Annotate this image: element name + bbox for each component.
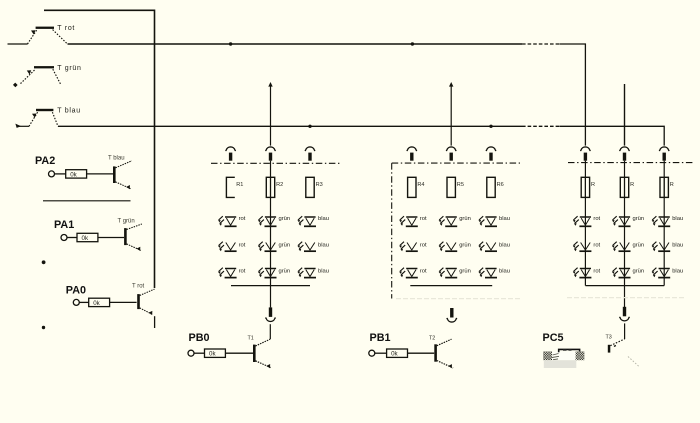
svg-text:T blau: T blau bbox=[108, 156, 125, 162]
resistor R9 bbox=[660, 177, 674, 197]
terminal PB0 with resistor 0k bbox=[188, 349, 225, 358]
connector arrow down module 3 bbox=[619, 307, 630, 321]
wire gruen feed module 1 with up arrow bbox=[268, 82, 272, 146]
svg-text:T blau: T blau bbox=[57, 108, 81, 115]
resistor R7 bbox=[581, 177, 595, 197]
svg-text:grün: grün bbox=[459, 269, 471, 275]
module 2 dash-dot border top bbox=[392, 162, 520, 164]
svg-text:blau: blau bbox=[672, 243, 683, 249]
svg-text:R2: R2 bbox=[276, 182, 283, 188]
wire module 3 arrow to T3 collector bbox=[624, 323, 626, 339]
wire module 1 arrow to T1 collector bbox=[269, 324, 271, 339]
LED D92 module 3 blau row 2 bbox=[652, 242, 684, 252]
LED D42 module 2 rot row 2 bbox=[399, 242, 427, 252]
wire top feed from T rot base to PA0 driver collector bbox=[44, 10, 155, 288]
wire faint caption under module 3 bbox=[567, 297, 686, 299]
svg-text:R: R bbox=[630, 182, 634, 188]
wire gruen feed module 2 with up arrow bbox=[449, 82, 453, 146]
node dot left of PA0 bbox=[42, 326, 45, 329]
svg-text:rot: rot bbox=[593, 269, 600, 275]
svg-text:R: R bbox=[591, 182, 595, 188]
junction blau rail / module 1 blau column bbox=[308, 125, 311, 128]
resistor R1 bbox=[226, 177, 243, 197]
svg-text:blau: blau bbox=[672, 269, 683, 275]
svg-text:T grün: T grün bbox=[57, 65, 81, 72]
transistor T2 (column driver) bbox=[434, 339, 453, 368]
connector arrow up module 3 gruen column bbox=[619, 147, 630, 161]
terminal PA2 with resistor 0k bbox=[49, 170, 87, 179]
connector arrow up module 1 rot column bbox=[225, 147, 236, 161]
LED D63 module 2 blau row 3 bbox=[478, 268, 510, 278]
LED D41 module 2 rot row 1 bbox=[399, 216, 427, 226]
wire blau rail dashed segment bbox=[522, 125, 560, 127]
svg-text:R6: R6 bbox=[497, 182, 504, 188]
transistor T rot (PNP row driver) bbox=[8, 27, 68, 44]
wire PB1 resistor to T2 base bbox=[408, 352, 435, 354]
svg-text:rot: rot bbox=[420, 269, 427, 275]
svg-text:rot: rot bbox=[239, 269, 246, 275]
terminal PB1 with resistor 0k bbox=[369, 349, 408, 358]
LED D62 module 2 blau row 2 bbox=[478, 242, 510, 252]
svg-text:R1: R1 bbox=[236, 182, 243, 188]
wire PA0 driver emitter stub bbox=[154, 316, 156, 328]
svg-text:blau: blau bbox=[499, 216, 510, 222]
terminal PA1 with resistor 0k bbox=[61, 233, 98, 242]
resistor PC5 (selected, hatched) bbox=[543, 349, 584, 368]
wire PA2 resistor to driver base bbox=[87, 173, 113, 175]
svg-text:blau: blau bbox=[318, 269, 329, 275]
LED D82 module 3 gruen row 2 bbox=[612, 242, 644, 252]
LED D83 module 3 gruen row 3 bbox=[612, 268, 644, 278]
wire module 2 bottom connector bbox=[410, 285, 492, 287]
svg-text:0k: 0k bbox=[209, 351, 216, 358]
svg-text:blau: blau bbox=[499, 269, 510, 275]
wire rot rail dashed segment bbox=[522, 43, 560, 45]
module 1 dash-dot border top bbox=[211, 162, 340, 164]
svg-text:grün: grün bbox=[279, 216, 291, 222]
svg-text:R: R bbox=[670, 182, 674, 188]
terminal PA0 with resistor 0k bbox=[73, 298, 109, 307]
wire faint caption under module 2 bbox=[396, 298, 521, 300]
LED D61 module 2 blau row 1 bbox=[478, 216, 510, 226]
svg-text:T rot: T rot bbox=[132, 284, 145, 290]
wire module 3 column vertical bbox=[663, 161, 665, 286]
svg-text:blau: blau bbox=[318, 243, 329, 249]
LED D43 module 2 rot row 3 bbox=[399, 268, 427, 278]
connector arrow up module 3 rot column bbox=[580, 147, 591, 161]
wire stray segment below PA2 bbox=[43, 200, 131, 202]
module 2 dash-dot border left bbox=[391, 163, 393, 298]
connector arrow down module 1 bbox=[265, 307, 276, 321]
wire module 1 bottom connector bbox=[231, 285, 310, 287]
svg-text:rot: rot bbox=[239, 243, 246, 249]
svg-text:grün: grün bbox=[279, 243, 291, 249]
transistor T3 (column driver) bbox=[608, 339, 639, 367]
wire PB0 resistor to T1 base bbox=[225, 352, 253, 354]
LED D22 module 1 gruen row 2 bbox=[258, 242, 290, 252]
svg-text:T3: T3 bbox=[606, 334, 612, 340]
svg-text:rot: rot bbox=[420, 243, 427, 249]
junction blau rail / module 2 blau column bbox=[489, 125, 492, 128]
LED D53 module 2 gruen row 3 bbox=[439, 268, 471, 278]
resistor R5 bbox=[447, 177, 464, 197]
svg-text:0k: 0k bbox=[70, 171, 77, 178]
svg-text:0k: 0k bbox=[82, 235, 89, 242]
svg-text:T grün: T grün bbox=[118, 218, 135, 224]
wire module 3 cathode drop bbox=[624, 286, 626, 307]
transistor T gruen (PNP row driver) bbox=[13, 66, 61, 87]
svg-text:grün: grün bbox=[459, 243, 471, 249]
resistor R8 bbox=[620, 177, 634, 197]
svg-text:PA2: PA2 bbox=[35, 155, 55, 167]
svg-text:grün: grün bbox=[633, 243, 645, 249]
connector arrow up module 1 blau column bbox=[305, 147, 316, 161]
LED D91 module 3 blau row 1 bbox=[652, 216, 684, 226]
LED D31 module 1 blau row 1 bbox=[297, 216, 329, 226]
svg-text:PA1: PA1 bbox=[54, 219, 74, 231]
svg-text:grün: grün bbox=[459, 216, 471, 222]
svg-text:0k: 0k bbox=[93, 300, 100, 307]
svg-text:T rot: T rot bbox=[57, 25, 75, 32]
svg-text:PB0: PB0 bbox=[189, 332, 210, 344]
wire module 1 cathode drop bbox=[270, 286, 272, 308]
resistor R4 bbox=[408, 177, 425, 197]
svg-text:R4: R4 bbox=[417, 182, 424, 188]
LED D32 module 1 blau row 2 bbox=[297, 242, 329, 252]
resistor R3 bbox=[306, 177, 323, 197]
svg-text:T2: T2 bbox=[429, 336, 435, 342]
LED D81 module 3 gruen row 1 bbox=[612, 216, 644, 226]
wire module 1 gruen column vertical bbox=[270, 161, 272, 286]
transistor T blau (PNP row driver) bbox=[15, 109, 58, 129]
resistor R2 bbox=[266, 177, 283, 197]
wire module 3 bottom connector bbox=[585, 285, 664, 287]
connector arrow down module 2 bbox=[446, 308, 457, 322]
wire rot rail right end with corner down to block 3 bbox=[560, 44, 586, 146]
svg-text:blau: blau bbox=[318, 216, 329, 222]
wire module 3 column vertical bbox=[584, 161, 586, 286]
wire PA0 resistor to driver base bbox=[110, 301, 137, 303]
svg-text:PB1: PB1 bbox=[370, 332, 391, 344]
LED D93 module 3 blau row 3 bbox=[652, 268, 684, 278]
svg-text:0k: 0k bbox=[391, 351, 398, 358]
LED D23 module 1 gruen row 3 bbox=[258, 268, 290, 278]
svg-text:blau: blau bbox=[672, 216, 683, 222]
connector arrow up module 3 blau column bbox=[659, 147, 670, 161]
transistor driver T gruen (PA1) bbox=[124, 224, 142, 251]
node dot left of PA1 bbox=[42, 260, 46, 264]
svg-text:grün: grün bbox=[633, 269, 645, 275]
LED D13 module 1 rot row 3 bbox=[218, 268, 246, 278]
LED D12 module 1 rot row 2 bbox=[218, 242, 246, 252]
svg-text:PC5: PC5 bbox=[543, 332, 564, 344]
junction rot rail / module 1 rot column bbox=[229, 42, 232, 45]
wire gruen feed module 3 vertical bbox=[624, 84, 626, 146]
LED D51 module 2 gruen row 1 bbox=[439, 216, 471, 226]
LED D33 module 1 blau row 3 bbox=[297, 268, 329, 278]
svg-text:rot: rot bbox=[239, 216, 246, 222]
wire module 3 column vertical bbox=[624, 161, 626, 286]
svg-text:rot: rot bbox=[593, 243, 600, 249]
transistor T1 (column driver) bbox=[253, 339, 272, 368]
LED D72 module 3 rot row 2 bbox=[573, 242, 601, 252]
connector arrow up module 2 rot column bbox=[406, 147, 417, 161]
connector arrow up module 2 blau column bbox=[486, 147, 497, 161]
svg-text:rot: rot bbox=[420, 216, 427, 222]
svg-text:rot: rot bbox=[593, 216, 600, 222]
connector arrow up module 1 gruen column bbox=[265, 147, 276, 161]
LED D52 module 2 gruen row 2 bbox=[439, 242, 471, 252]
LED D73 module 3 rot row 3 bbox=[573, 268, 601, 278]
connector arrow up module 2 gruen column bbox=[446, 147, 457, 161]
LED D21 module 1 gruen row 1 bbox=[258, 216, 290, 226]
resistor R6 bbox=[487, 177, 504, 197]
svg-text:R5: R5 bbox=[457, 182, 464, 188]
svg-text:R3: R3 bbox=[316, 182, 323, 188]
transistor driver T rot (PA0) bbox=[137, 289, 154, 315]
wire blau rail horizontal bbox=[58, 125, 522, 127]
wire rot rail horizontal bbox=[68, 43, 523, 45]
LED D11 module 1 rot row 1 bbox=[218, 216, 246, 226]
svg-text:blau: blau bbox=[499, 243, 510, 249]
svg-text:grün: grün bbox=[279, 269, 291, 275]
LED D71 module 3 rot row 1 bbox=[573, 216, 601, 226]
svg-text:PA0: PA0 bbox=[66, 285, 86, 297]
wire PA1 resistor to driver base bbox=[98, 237, 124, 239]
transistor driver T blau (PA2) bbox=[113, 161, 132, 189]
junction rot rail / module 2 rot column bbox=[411, 42, 414, 45]
wire blau rail right end with corner down to block 3 bbox=[560, 126, 665, 145]
svg-text:T1: T1 bbox=[248, 335, 254, 341]
svg-text:grün: grün bbox=[633, 216, 645, 222]
module 3 dash-dot border top bbox=[568, 162, 694, 164]
